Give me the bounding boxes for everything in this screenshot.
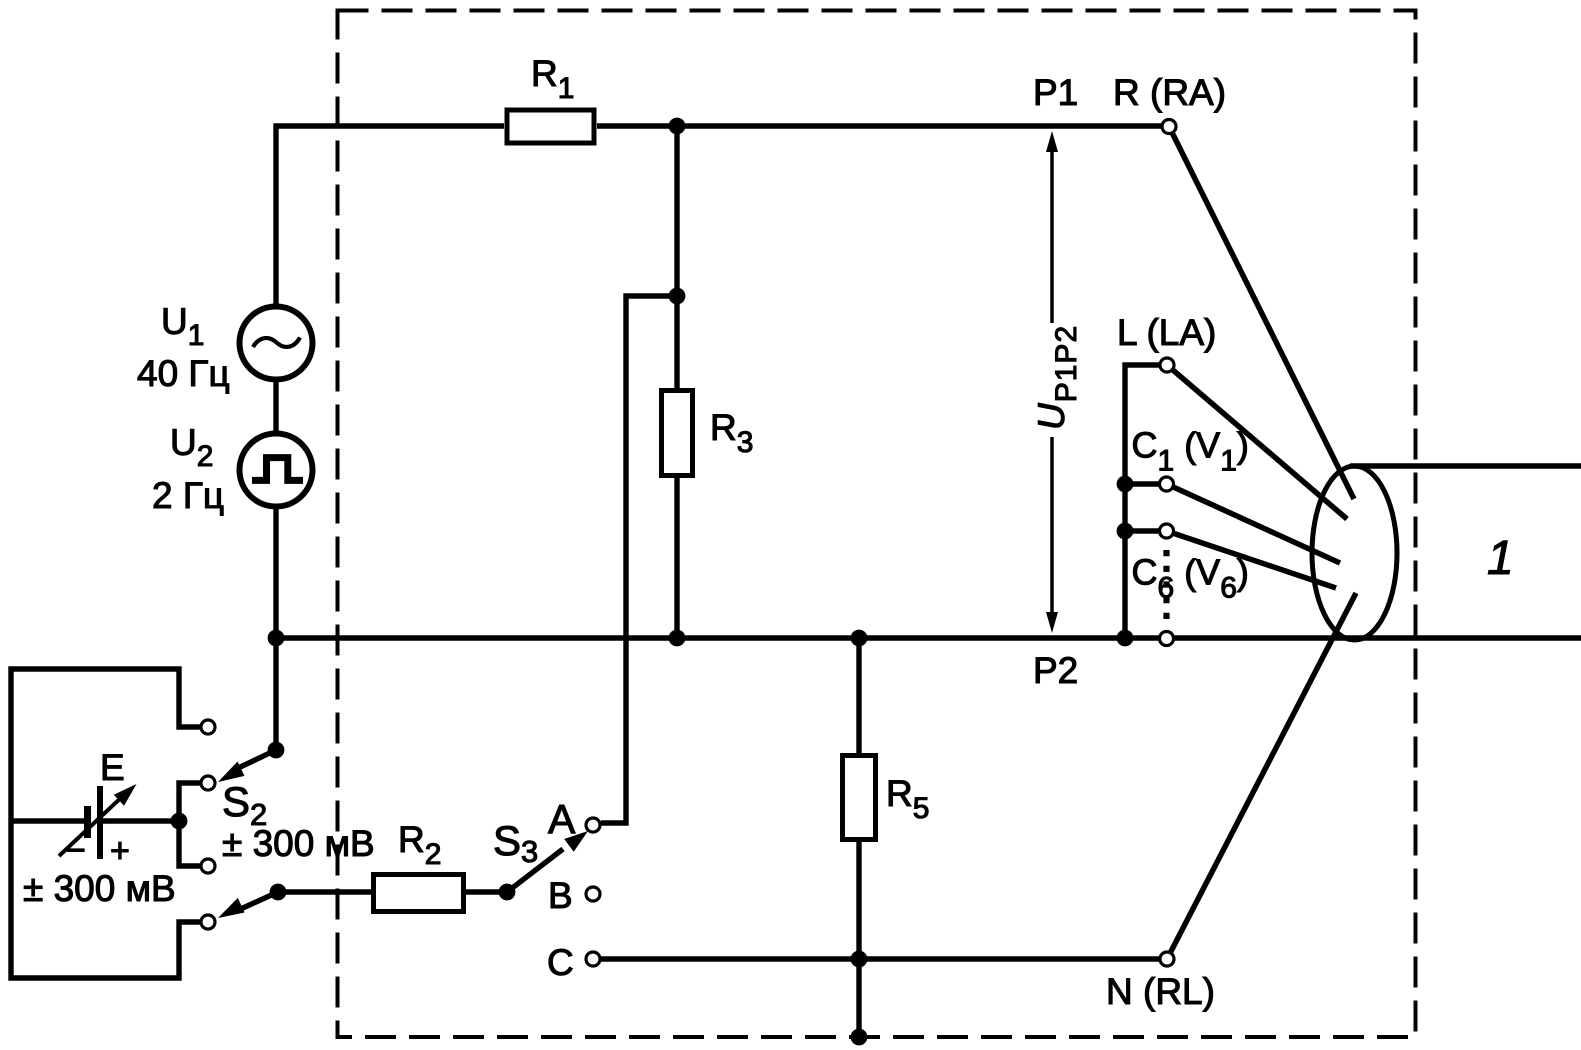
terminal circle box S2 throw bbox=[201, 776, 215, 790]
wire R5 bottom down to boundary bbox=[856, 842, 861, 1037]
wire R2 to S3 pivot bbox=[464, 889, 507, 894]
terminal circle box upper bbox=[201, 720, 215, 734]
wire P2 rail down to R5 bbox=[856, 638, 861, 753]
wire patient-cable lead C1 to electrode bbox=[1174, 487, 1340, 563]
terminal circle B bbox=[586, 887, 600, 901]
wire lead-L vertical bus bbox=[1125, 365, 1159, 638]
wire battery right lead bbox=[103, 818, 179, 823]
terminal circle N (RL) bbox=[1160, 952, 1174, 966]
battery E variability arrow bbox=[59, 794, 125, 856]
wire node x677 down to R3 bbox=[674, 126, 679, 388]
wire P2 rail horizontal bbox=[276, 635, 1581, 640]
wire stub to terminal C1 bbox=[1125, 481, 1159, 486]
junction node on boundary bbox=[851, 1029, 868, 1046]
dashed test-circuit boundary box bbox=[338, 11, 1416, 1038]
source U1 (sine generator) bbox=[240, 307, 313, 380]
svg-text:P2: P2 bbox=[1033, 650, 1078, 691]
svg-text:N (RL): N (RL) bbox=[1106, 971, 1215, 1012]
battery E negative plate bbox=[84, 806, 91, 838]
junction node R3 bottom on P2 bbox=[669, 630, 686, 647]
wire U1 to U2 bbox=[273, 382, 278, 432]
junction node S2 lower pivot bbox=[270, 884, 287, 901]
dimension arrow U_P1P2 bbox=[1050, 145, 1054, 323]
svg-text:−: − bbox=[66, 832, 86, 870]
resistor R1 bbox=[507, 110, 594, 143]
terminal circle C1 bbox=[1160, 477, 1174, 491]
svg-text:B: B bbox=[548, 875, 573, 916]
svg-text:A: A bbox=[548, 796, 576, 842]
terminal circle C2 bbox=[1160, 524, 1174, 538]
terminal circle R (RA) bbox=[1162, 120, 1176, 134]
svg-text:2 Гц: 2 Гц bbox=[152, 475, 224, 516]
wire S2 lower pole to R2 bbox=[278, 889, 374, 894]
svg-text:+: + bbox=[110, 832, 130, 870]
wire electrode output to the right bbox=[1350, 463, 1581, 468]
terminal circle A bbox=[586, 818, 600, 832]
calibration source box bbox=[11, 669, 201, 978]
resistor R2 bbox=[374, 875, 464, 912]
wire top horizontal from source to R1 bbox=[276, 126, 504, 304]
dotted line between C2 and C6 terminals bbox=[1163, 550, 1169, 621]
wire R3 bottom to P2 rail bbox=[674, 478, 679, 638]
junction node lead bus C1 bbox=[1117, 476, 1134, 493]
switch S2 lower arm bbox=[234, 892, 278, 912]
switch S2 upper arm bbox=[232, 750, 276, 771]
svg-text:R (RA): R (RA) bbox=[1113, 72, 1226, 113]
wire patient-cable lead N to electrode bbox=[1171, 593, 1356, 952]
source U2 (pulse generator) bbox=[240, 434, 313, 507]
wire branch to switch contact A bbox=[601, 296, 677, 823]
terminal circle box lower bbox=[201, 915, 215, 929]
junction node lead bus C2 bbox=[1117, 523, 1134, 540]
switch S3 arm bbox=[507, 849, 563, 892]
wire battery left lead bbox=[11, 818, 84, 823]
wire stub to terminal C2 bbox=[1125, 528, 1159, 533]
junction node source on P2 bbox=[268, 630, 285, 647]
resistor R3 bbox=[662, 391, 693, 476]
svg-text:L (LA): L (LA) bbox=[1117, 312, 1216, 353]
wire R1 to node at x677 and on to terminal R bbox=[597, 123, 1161, 128]
svg-text:E: E bbox=[100, 747, 125, 788]
svg-text:C: C bbox=[547, 942, 574, 983]
junction node branch x677 bbox=[669, 288, 686, 305]
electrode ellipse 1 bbox=[1312, 466, 1397, 640]
junction node R5 top on P2 bbox=[851, 630, 868, 647]
junction node lead bus P2 bbox=[1117, 630, 1134, 647]
wire patient-cable lead C6 to electrode bbox=[1174, 534, 1336, 588]
svg-text:1: 1 bbox=[1487, 532, 1514, 585]
wire patient-cable lead L to electrode bbox=[1173, 370, 1347, 519]
wire U2 down to P2 rail and S2 pivot bbox=[273, 509, 278, 750]
battery E positive plate bbox=[97, 786, 103, 859]
wire contact C to node under R5 and on to terminal N bbox=[600, 956, 1161, 961]
terminal circle C bbox=[586, 952, 600, 966]
wire patient-cable lead R to electrode bbox=[1173, 134, 1354, 499]
svg-text:P1: P1 bbox=[1033, 72, 1078, 113]
junction node R5 bottom bbox=[851, 951, 868, 968]
svg-text:± 300 мВ: ± 300 мВ bbox=[222, 823, 375, 864]
wire battery output stubs bbox=[179, 783, 201, 866]
resistor R5 bbox=[843, 756, 876, 840]
junction node battery output bbox=[171, 813, 188, 830]
terminal circle box mid-lower bbox=[201, 859, 215, 873]
svg-text:± 300 мВ: ± 300 мВ bbox=[23, 868, 176, 909]
junction node R1-R3 top bbox=[669, 118, 686, 135]
svg-text:40 Гц: 40 Гц bbox=[137, 353, 230, 394]
terminal circle L (LA) bbox=[1160, 358, 1174, 372]
junction node S3 pivot bbox=[499, 884, 516, 901]
junction node S2 pivot bbox=[268, 742, 285, 759]
terminal circle C6 on P2 bbox=[1160, 632, 1174, 646]
